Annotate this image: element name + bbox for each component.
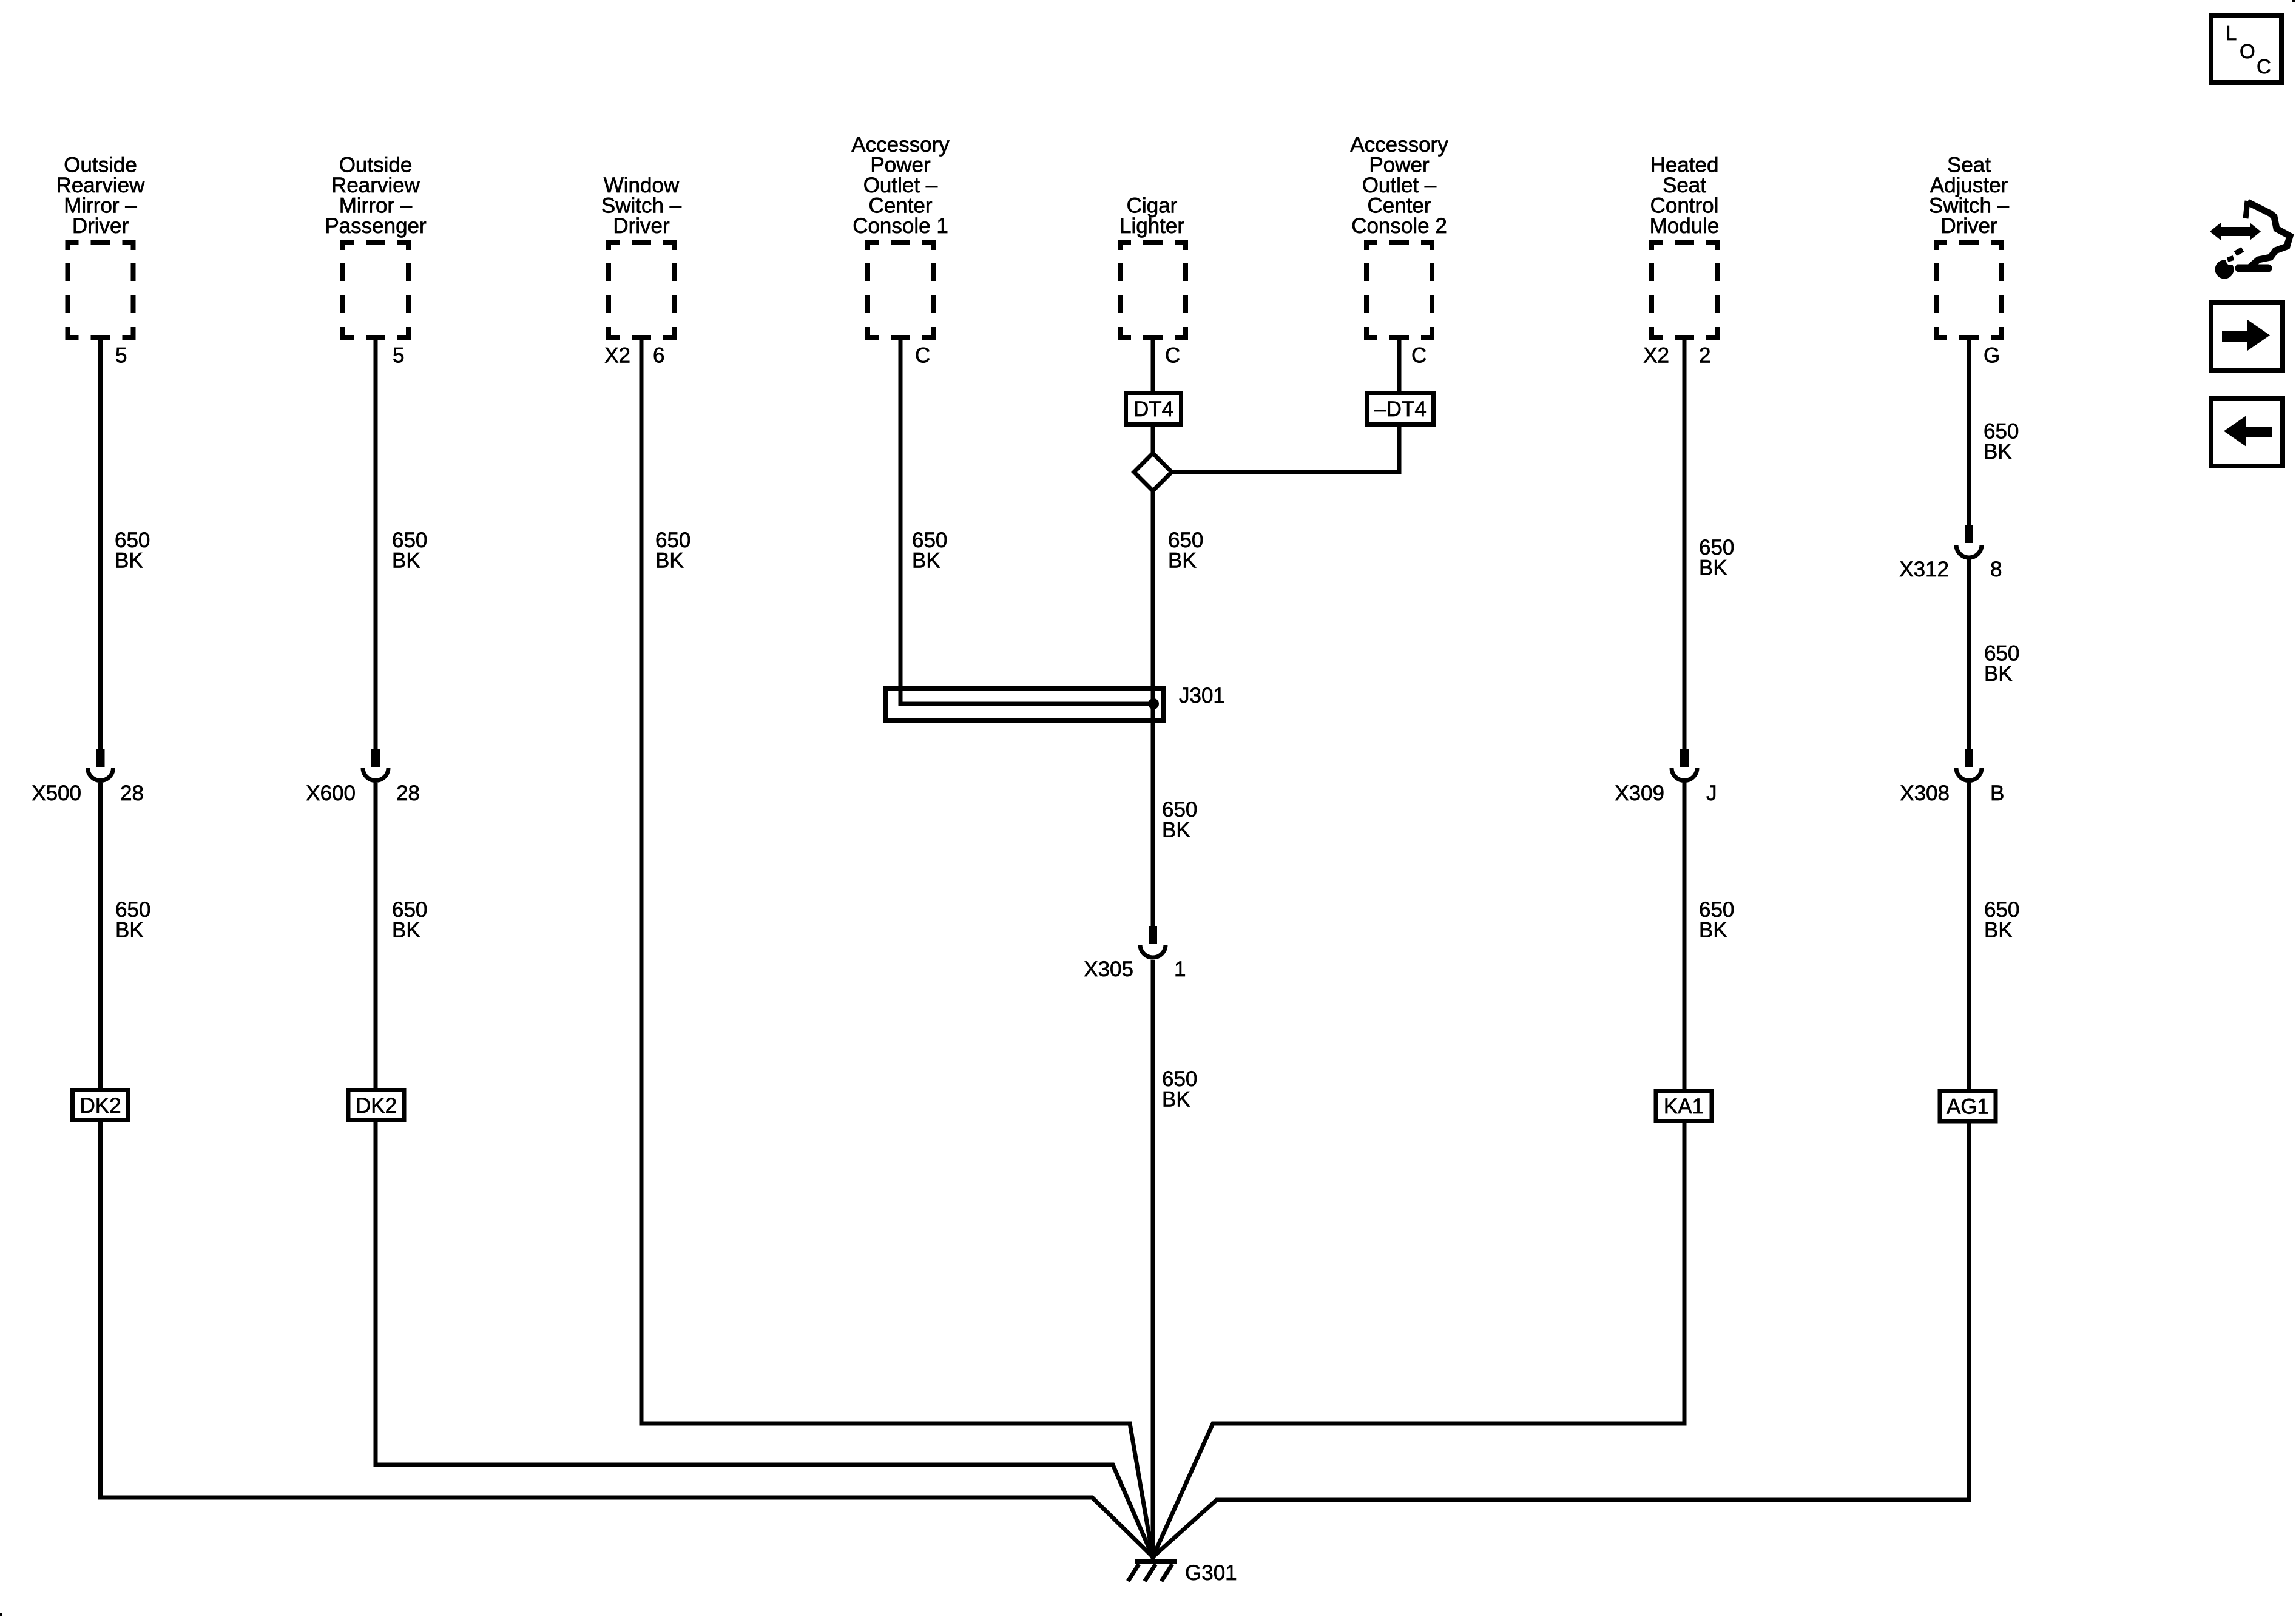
svg-text:X2: X2	[1643, 344, 1669, 368]
svg-text:6: 6	[653, 344, 664, 368]
svg-text:BK: BK	[1984, 440, 2012, 464]
svg-text:1: 1	[1174, 957, 1186, 981]
svg-text:X312: X312	[1899, 558, 1949, 581]
svg-text:X500: X500	[32, 781, 81, 805]
svg-text:X600: X600	[306, 781, 356, 805]
svg-text:Module: Module	[1650, 214, 1720, 238]
svg-text:C: C	[2257, 55, 2271, 78]
svg-text:DK2: DK2	[79, 1094, 121, 1118]
svg-text:BK: BK	[115, 919, 144, 942]
svg-text:BK: BK	[1168, 549, 1197, 573]
svg-text:BK: BK	[115, 549, 143, 573]
svg-text:28: 28	[396, 781, 420, 805]
svg-text:BK: BK	[1162, 1088, 1190, 1112]
svg-text:BK: BK	[1984, 662, 2013, 686]
svg-text:AG1: AG1	[1947, 1095, 1989, 1119]
svg-text:Lighter: Lighter	[1119, 214, 1184, 238]
svg-text:Driver: Driver	[613, 214, 670, 238]
svg-text:2: 2	[1699, 344, 1710, 368]
svg-text:B: B	[1990, 781, 2004, 805]
svg-text:BK: BK	[655, 549, 684, 573]
svg-text:BK: BK	[392, 549, 420, 573]
svg-text:KA1: KA1	[1664, 1095, 1704, 1118]
svg-text:G: G	[1984, 344, 2000, 368]
svg-text:BK: BK	[392, 919, 420, 942]
svg-text:C: C	[1411, 344, 1427, 368]
svg-text:BK: BK	[1984, 919, 2013, 942]
svg-text:Driver: Driver	[1940, 214, 1997, 238]
svg-text:DK2: DK2	[356, 1094, 397, 1118]
svg-text:Console 2: Console 2	[1351, 214, 1447, 238]
svg-text:O: O	[2240, 40, 2255, 62]
svg-text:8: 8	[1990, 558, 2002, 581]
svg-text:DT4: DT4	[1133, 397, 1173, 421]
svg-text:X2: X2	[604, 344, 630, 368]
svg-text:L: L	[2226, 22, 2237, 44]
svg-text:G301: G301	[1185, 1561, 1237, 1585]
svg-text:5: 5	[393, 344, 404, 368]
svg-text:BK: BK	[912, 549, 940, 573]
svg-text:BK: BK	[1699, 556, 1727, 580]
svg-text:Driver: Driver	[72, 214, 129, 238]
svg-text:Console 1: Console 1	[853, 214, 948, 238]
svg-text:Passenger: Passenger	[325, 214, 427, 238]
svg-text:–DT4: –DT4	[1374, 397, 1427, 421]
svg-text:C: C	[915, 344, 930, 368]
svg-text:J: J	[1706, 781, 1717, 805]
svg-text:C: C	[1165, 344, 1180, 368]
svg-text:X308: X308	[1900, 781, 1950, 805]
svg-text:BK: BK	[1162, 819, 1190, 842]
svg-text:BK: BK	[1699, 919, 1727, 942]
svg-text:J301: J301	[1179, 684, 1225, 707]
svg-text:X309: X309	[1615, 781, 1664, 805]
svg-text:X305: X305	[1084, 957, 1133, 981]
svg-text:5: 5	[115, 344, 127, 368]
svg-text:28: 28	[120, 781, 144, 805]
